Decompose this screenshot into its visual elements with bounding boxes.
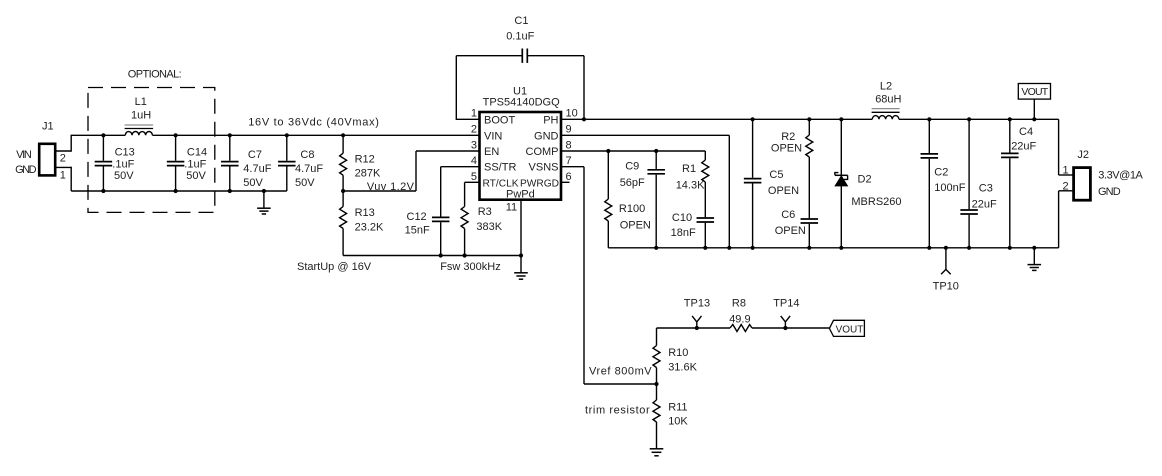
svg-text:50V: 50V xyxy=(295,177,315,189)
value 50V (C7) xyxy=(243,177,263,189)
svg-text:14.3K: 14.3K xyxy=(676,179,705,191)
value 68uH xyxy=(875,93,901,105)
svg-text:100nF: 100nF xyxy=(934,182,965,194)
pin 1 label J1 xyxy=(60,170,66,182)
junction dot R12-R13-EN xyxy=(341,189,345,193)
junction dots power ground rail xyxy=(654,246,1036,250)
svg-text:TPS54140DGQ: TPS54140DGQ xyxy=(483,97,560,109)
label Fsw 300kHz xyxy=(440,261,501,273)
label J1 xyxy=(42,121,54,133)
svg-text:R13: R13 xyxy=(355,207,375,219)
svg-text:OPEN: OPEN xyxy=(771,143,802,155)
pin number 3 xyxy=(471,139,477,151)
pin name PH xyxy=(543,114,558,126)
test point TP13 xyxy=(692,316,701,330)
label C4 xyxy=(1019,126,1033,138)
pin number 7 xyxy=(566,155,572,167)
pin name EN xyxy=(484,146,499,158)
junction dot Vref node xyxy=(654,382,658,386)
svg-text:VOUT: VOUT xyxy=(1021,86,1048,98)
inductor L2 xyxy=(872,109,900,120)
svg-text:R100: R100 xyxy=(619,203,645,215)
svg-text:OPEN: OPEN xyxy=(620,220,651,232)
value 4.7uF (C7) xyxy=(243,163,271,175)
svg-text:BOOT: BOOT xyxy=(484,114,515,126)
svg-text:11: 11 xyxy=(506,202,517,214)
svg-text:7: 7 xyxy=(566,155,572,167)
junction dots output rail xyxy=(927,117,1036,121)
svg-text:D2: D2 xyxy=(858,173,872,185)
svg-text:OPEN: OPEN xyxy=(775,225,806,237)
wire feedback top xyxy=(657,327,830,329)
svg-text:Fsw 300kHz: Fsw 300kHz xyxy=(440,261,501,273)
label R12 xyxy=(355,154,375,166)
svg-text:R1: R1 xyxy=(682,163,696,175)
junction dots input rail xyxy=(101,133,345,137)
value 50V (C13) xyxy=(114,170,134,182)
svg-text:Vref 800mV: Vref 800mV xyxy=(589,366,652,378)
test point TP14 xyxy=(781,316,790,330)
value 0.1uF xyxy=(506,30,534,42)
capacitor C7 xyxy=(221,135,239,191)
value 50V (C8) xyxy=(295,177,315,189)
svg-text:C2: C2 xyxy=(934,166,948,178)
value 22uF (C4) xyxy=(1011,141,1036,153)
capacitor C6 xyxy=(801,219,819,248)
value .1uF (C13) xyxy=(112,158,134,170)
resistor R2 xyxy=(806,119,813,218)
svg-text:R2: R2 xyxy=(781,131,795,143)
diode D2 MBRS260 xyxy=(835,119,848,248)
svg-text:49.9: 49.9 xyxy=(729,313,750,325)
svg-text:PwPd: PwPd xyxy=(506,188,535,200)
svg-text:VSNS: VSNS xyxy=(529,162,559,174)
svg-text:R11: R11 xyxy=(668,401,687,413)
svg-text:L1: L1 xyxy=(135,96,147,108)
wire VSNS net xyxy=(561,167,657,384)
capacitor C8 xyxy=(278,135,296,191)
svg-text:50V: 50V xyxy=(243,177,263,189)
svg-text:VIN: VIN xyxy=(484,130,502,142)
value 4.7uF (C8) xyxy=(295,163,323,175)
pin number 5 xyxy=(471,171,477,183)
pin number 8 xyxy=(566,139,572,151)
svg-text:VOUT: VOUT xyxy=(836,324,864,335)
pin 2 label J1 xyxy=(60,153,66,165)
resistor R3 xyxy=(461,182,479,255)
capacitor C1 xyxy=(522,49,527,63)
svg-text:J2: J2 xyxy=(1077,149,1089,161)
label R11 xyxy=(668,401,687,413)
label R10 xyxy=(668,347,688,359)
svg-text:1uH: 1uH xyxy=(131,110,151,122)
label C9 xyxy=(625,160,639,172)
svg-text:C12: C12 xyxy=(407,211,427,223)
svg-text:C14: C14 xyxy=(187,147,207,159)
svg-text:0.1uF: 0.1uF xyxy=(506,30,534,42)
pin name BOOT xyxy=(484,114,515,126)
svg-text:10K: 10K xyxy=(668,416,688,428)
label StartUp @ 16V xyxy=(297,261,372,273)
resistor R11 xyxy=(653,384,660,449)
svg-text:GND: GND xyxy=(15,164,36,176)
capacitor C12 xyxy=(432,167,480,256)
value OPEN (R2) xyxy=(771,143,802,155)
capacitor C14 xyxy=(167,135,185,191)
label R1 xyxy=(682,163,696,175)
capacitor C2 xyxy=(921,119,939,248)
svg-text:C3: C3 xyxy=(979,182,993,194)
value OPEN (C5) xyxy=(768,185,799,197)
svg-text:R3: R3 xyxy=(478,206,492,218)
capacitor C5 xyxy=(744,119,762,248)
label R2 xyxy=(781,131,795,143)
label C5 xyxy=(769,169,783,181)
label TP14 xyxy=(773,297,799,309)
svg-text:C9: C9 xyxy=(625,160,639,172)
label VIN (J1) xyxy=(16,149,32,161)
svg-text:22uF: 22uF xyxy=(1011,141,1036,153)
value 56pF xyxy=(620,177,645,189)
wire BOOT to C1 xyxy=(456,56,521,120)
inductor L1 xyxy=(125,125,154,135)
label C12 xyxy=(407,211,427,223)
svg-text:1: 1 xyxy=(1063,164,1069,176)
value 49.9 xyxy=(729,313,750,325)
svg-text:OPTIONAL:: OPTIONAL: xyxy=(128,69,182,81)
svg-text:50V: 50V xyxy=(186,170,206,182)
svg-text:2: 2 xyxy=(60,153,66,165)
svg-text:C1: C1 xyxy=(514,15,528,27)
wire J2 pin2 to ground rail xyxy=(1059,191,1074,248)
value 287K xyxy=(355,167,381,179)
value OPEN (R100) xyxy=(620,220,651,232)
pin name VSNS xyxy=(529,162,559,174)
wire U1 pin11 to ground bus xyxy=(520,200,522,256)
value 1uH xyxy=(131,110,151,122)
svg-text:4.7uF: 4.7uF xyxy=(295,163,323,175)
capacitor C10 xyxy=(697,218,715,248)
value 50V (C14) xyxy=(186,170,206,182)
label C13 xyxy=(115,147,135,159)
label L2 xyxy=(880,80,892,92)
svg-text:15nF: 15nF xyxy=(405,225,430,237)
svg-text:3.3V@1A: 3.3V@1A xyxy=(1098,170,1143,182)
pin name PwPd xyxy=(506,188,535,200)
wire C1 to PH xyxy=(528,56,584,120)
svg-text:16V to 36Vdc (40Vmax): 16V to 36Vdc (40Vmax) xyxy=(248,116,379,128)
resistor R100 xyxy=(605,151,612,248)
label R3 xyxy=(478,206,492,218)
resistor R13 xyxy=(340,191,347,256)
value 18nF xyxy=(671,227,696,239)
pin number 10 xyxy=(566,108,578,120)
svg-text:L2: L2 xyxy=(880,80,892,92)
ground (output) xyxy=(1028,248,1042,271)
label U1 xyxy=(513,86,527,98)
wire PWRGD stub xyxy=(561,181,570,183)
svg-text:Vuv 1.2V: Vuv 1.2V xyxy=(367,181,415,193)
svg-text:MBRS260: MBRS260 xyxy=(851,196,901,208)
label GND (J2) xyxy=(1098,186,1121,198)
junction dots analog ground bus xyxy=(439,253,524,257)
resistor R1 xyxy=(702,151,709,217)
label C2 xyxy=(934,166,948,178)
svg-text:1: 1 xyxy=(60,170,66,182)
connector J2 xyxy=(1074,168,1091,201)
svg-text:SS/TR: SS/TR xyxy=(484,162,516,174)
value 22uF (C3) xyxy=(972,199,997,211)
wire EN net xyxy=(343,151,479,191)
pin number 2 xyxy=(471,124,477,136)
pin number 4 xyxy=(471,155,477,167)
svg-text:trim resistor: trim resistor xyxy=(585,405,650,417)
wire input rail left segment xyxy=(71,134,126,136)
svg-text:3: 3 xyxy=(471,139,477,151)
svg-text:8: 8 xyxy=(566,139,572,151)
wire COMP net xyxy=(561,150,705,152)
wire VOUT label to rail xyxy=(1033,99,1035,119)
value 10K xyxy=(668,416,688,428)
dashed optional box xyxy=(88,88,215,213)
svg-text:4: 4 xyxy=(471,155,477,167)
connector J1 xyxy=(39,144,55,176)
value 100nF xyxy=(934,182,965,194)
svg-text:C10: C10 xyxy=(672,212,692,224)
svg-text:PH: PH xyxy=(543,114,558,126)
resistor R12 xyxy=(340,135,347,191)
resistor R10 xyxy=(653,328,660,384)
junction dot C1-PH xyxy=(582,117,586,121)
pin 2 label J2 xyxy=(1063,180,1069,192)
wire rail to J2 pin1 xyxy=(1059,119,1074,175)
label C6 xyxy=(781,209,795,221)
label OPTIONAL xyxy=(128,69,182,81)
ground (input filter) xyxy=(257,191,271,214)
capacitor C9 xyxy=(647,151,665,248)
label TP13 xyxy=(684,297,710,309)
label C3 xyxy=(979,182,993,194)
pin name SS/TR xyxy=(484,162,516,174)
svg-text:22uF: 22uF xyxy=(972,199,997,211)
svg-text:C5: C5 xyxy=(769,169,783,181)
svg-text:R12: R12 xyxy=(355,154,375,166)
svg-text:1: 1 xyxy=(471,108,477,120)
label trim resistor xyxy=(585,405,650,417)
label L1 xyxy=(135,96,147,108)
pin 1 label J2 xyxy=(1063,164,1069,176)
svg-text:J1: J1 xyxy=(42,121,54,133)
wire PH rail xyxy=(561,118,872,120)
label TPS54140DGQ xyxy=(483,97,560,109)
svg-text:18nF: 18nF xyxy=(671,227,696,239)
pin name PWRGD xyxy=(520,178,559,189)
resistor R8 xyxy=(730,325,752,332)
pin number 6 xyxy=(566,171,572,183)
pin number 1 xyxy=(471,108,477,120)
label 3.3V@1A xyxy=(1098,170,1143,182)
svg-text:68uH: 68uH xyxy=(875,93,901,105)
label C14 xyxy=(187,147,207,159)
label J2 xyxy=(1077,149,1089,161)
svg-text:TP13: TP13 xyxy=(684,297,710,309)
value .1uF (C14) xyxy=(184,158,206,170)
svg-text:C7: C7 xyxy=(248,149,262,161)
svg-text:VIN: VIN xyxy=(16,149,32,161)
op-amp U1 TPS54140DGQ box xyxy=(480,112,562,200)
svg-text:GND: GND xyxy=(1098,186,1121,198)
ground (U1 PwPd) xyxy=(514,256,528,280)
junction dots COMP net xyxy=(606,149,658,153)
capacitor C13 xyxy=(95,135,113,191)
value 23.2K xyxy=(355,221,384,233)
label C10 xyxy=(672,212,692,224)
svg-text:TP14: TP14 xyxy=(773,297,799,309)
label C1 xyxy=(514,15,528,27)
test point TP10 xyxy=(941,248,951,274)
svg-text:10: 10 xyxy=(566,108,578,120)
label 16V to 36Vdc (40Vmax) xyxy=(248,116,379,128)
pin name VIN xyxy=(484,130,502,142)
pin name GND xyxy=(534,130,559,142)
label D2 xyxy=(858,173,872,185)
pin number 9 xyxy=(566,124,572,136)
svg-text:C13: C13 xyxy=(115,147,135,159)
svg-text:2: 2 xyxy=(471,124,477,136)
svg-text:23.2K: 23.2K xyxy=(355,221,384,233)
value OPEN (C6) xyxy=(775,225,806,237)
wire analog ground bus xyxy=(343,255,521,257)
svg-text:C6: C6 xyxy=(781,209,795,221)
label C7 xyxy=(248,149,262,161)
svg-text:R8: R8 xyxy=(732,297,746,309)
svg-text:R10: R10 xyxy=(668,347,688,359)
wire filter ground rail xyxy=(71,190,287,192)
svg-text:6: 6 xyxy=(566,171,572,183)
value 14.3K xyxy=(676,179,705,191)
capacitor C3 xyxy=(960,119,978,248)
capacitor C4 xyxy=(1001,119,1019,248)
wire power ground rail xyxy=(608,247,1058,249)
label Vref 800mV xyxy=(589,366,652,378)
pin name RT/CLK xyxy=(483,178,519,189)
svg-text:2: 2 xyxy=(1063,180,1069,192)
net label VOUT (output) xyxy=(1018,84,1050,100)
svg-text:OPEN: OPEN xyxy=(768,185,799,197)
svg-text:5: 5 xyxy=(471,171,477,183)
label TP10 xyxy=(933,281,959,293)
wire J1 pin2 to input rail xyxy=(55,135,71,151)
svg-text:COMP: COMP xyxy=(526,146,559,158)
net label VOUT (flag) xyxy=(829,320,864,336)
svg-text:56pF: 56pF xyxy=(620,177,645,189)
svg-text:4.7uF: 4.7uF xyxy=(243,163,271,175)
svg-text:383K: 383K xyxy=(476,221,502,233)
value 383K xyxy=(476,221,502,233)
svg-text:.1uF: .1uF xyxy=(184,158,206,170)
svg-text:.1uF: .1uF xyxy=(112,158,134,170)
svg-text:50V: 50V xyxy=(114,170,134,182)
svg-text:GND: GND xyxy=(534,130,559,142)
value MBRS260 xyxy=(851,196,901,208)
label R100 xyxy=(619,203,645,215)
label R8 xyxy=(732,297,746,309)
wire J1 pin1 to ground rail xyxy=(55,167,71,191)
wire GND pin to power ground xyxy=(561,135,729,248)
svg-text:StartUp @ 16V: StartUp @ 16V xyxy=(297,261,372,273)
junction dots PH rail xyxy=(751,117,844,121)
svg-text:31.6K: 31.6K xyxy=(668,361,697,373)
pin name COMP xyxy=(526,146,559,158)
ground (feedback) xyxy=(650,449,664,456)
label R13 xyxy=(355,207,375,219)
svg-text:EN: EN xyxy=(484,146,499,158)
svg-text:287K: 287K xyxy=(355,167,381,179)
value 31.6K xyxy=(668,361,697,373)
junction dots filter ground rail xyxy=(101,189,266,193)
svg-text:TP10: TP10 xyxy=(933,281,959,293)
label C8 xyxy=(300,149,314,161)
svg-text:9: 9 xyxy=(566,124,572,136)
label GND (J1) xyxy=(15,164,36,176)
svg-text:C8: C8 xyxy=(300,149,314,161)
value 15nF xyxy=(405,225,430,237)
svg-text:C4: C4 xyxy=(1019,126,1033,138)
pin number 11 xyxy=(506,202,517,214)
wire input rail main segment xyxy=(152,134,479,136)
wire output rail xyxy=(899,118,1059,120)
label Vuv 1.2V xyxy=(367,181,415,193)
